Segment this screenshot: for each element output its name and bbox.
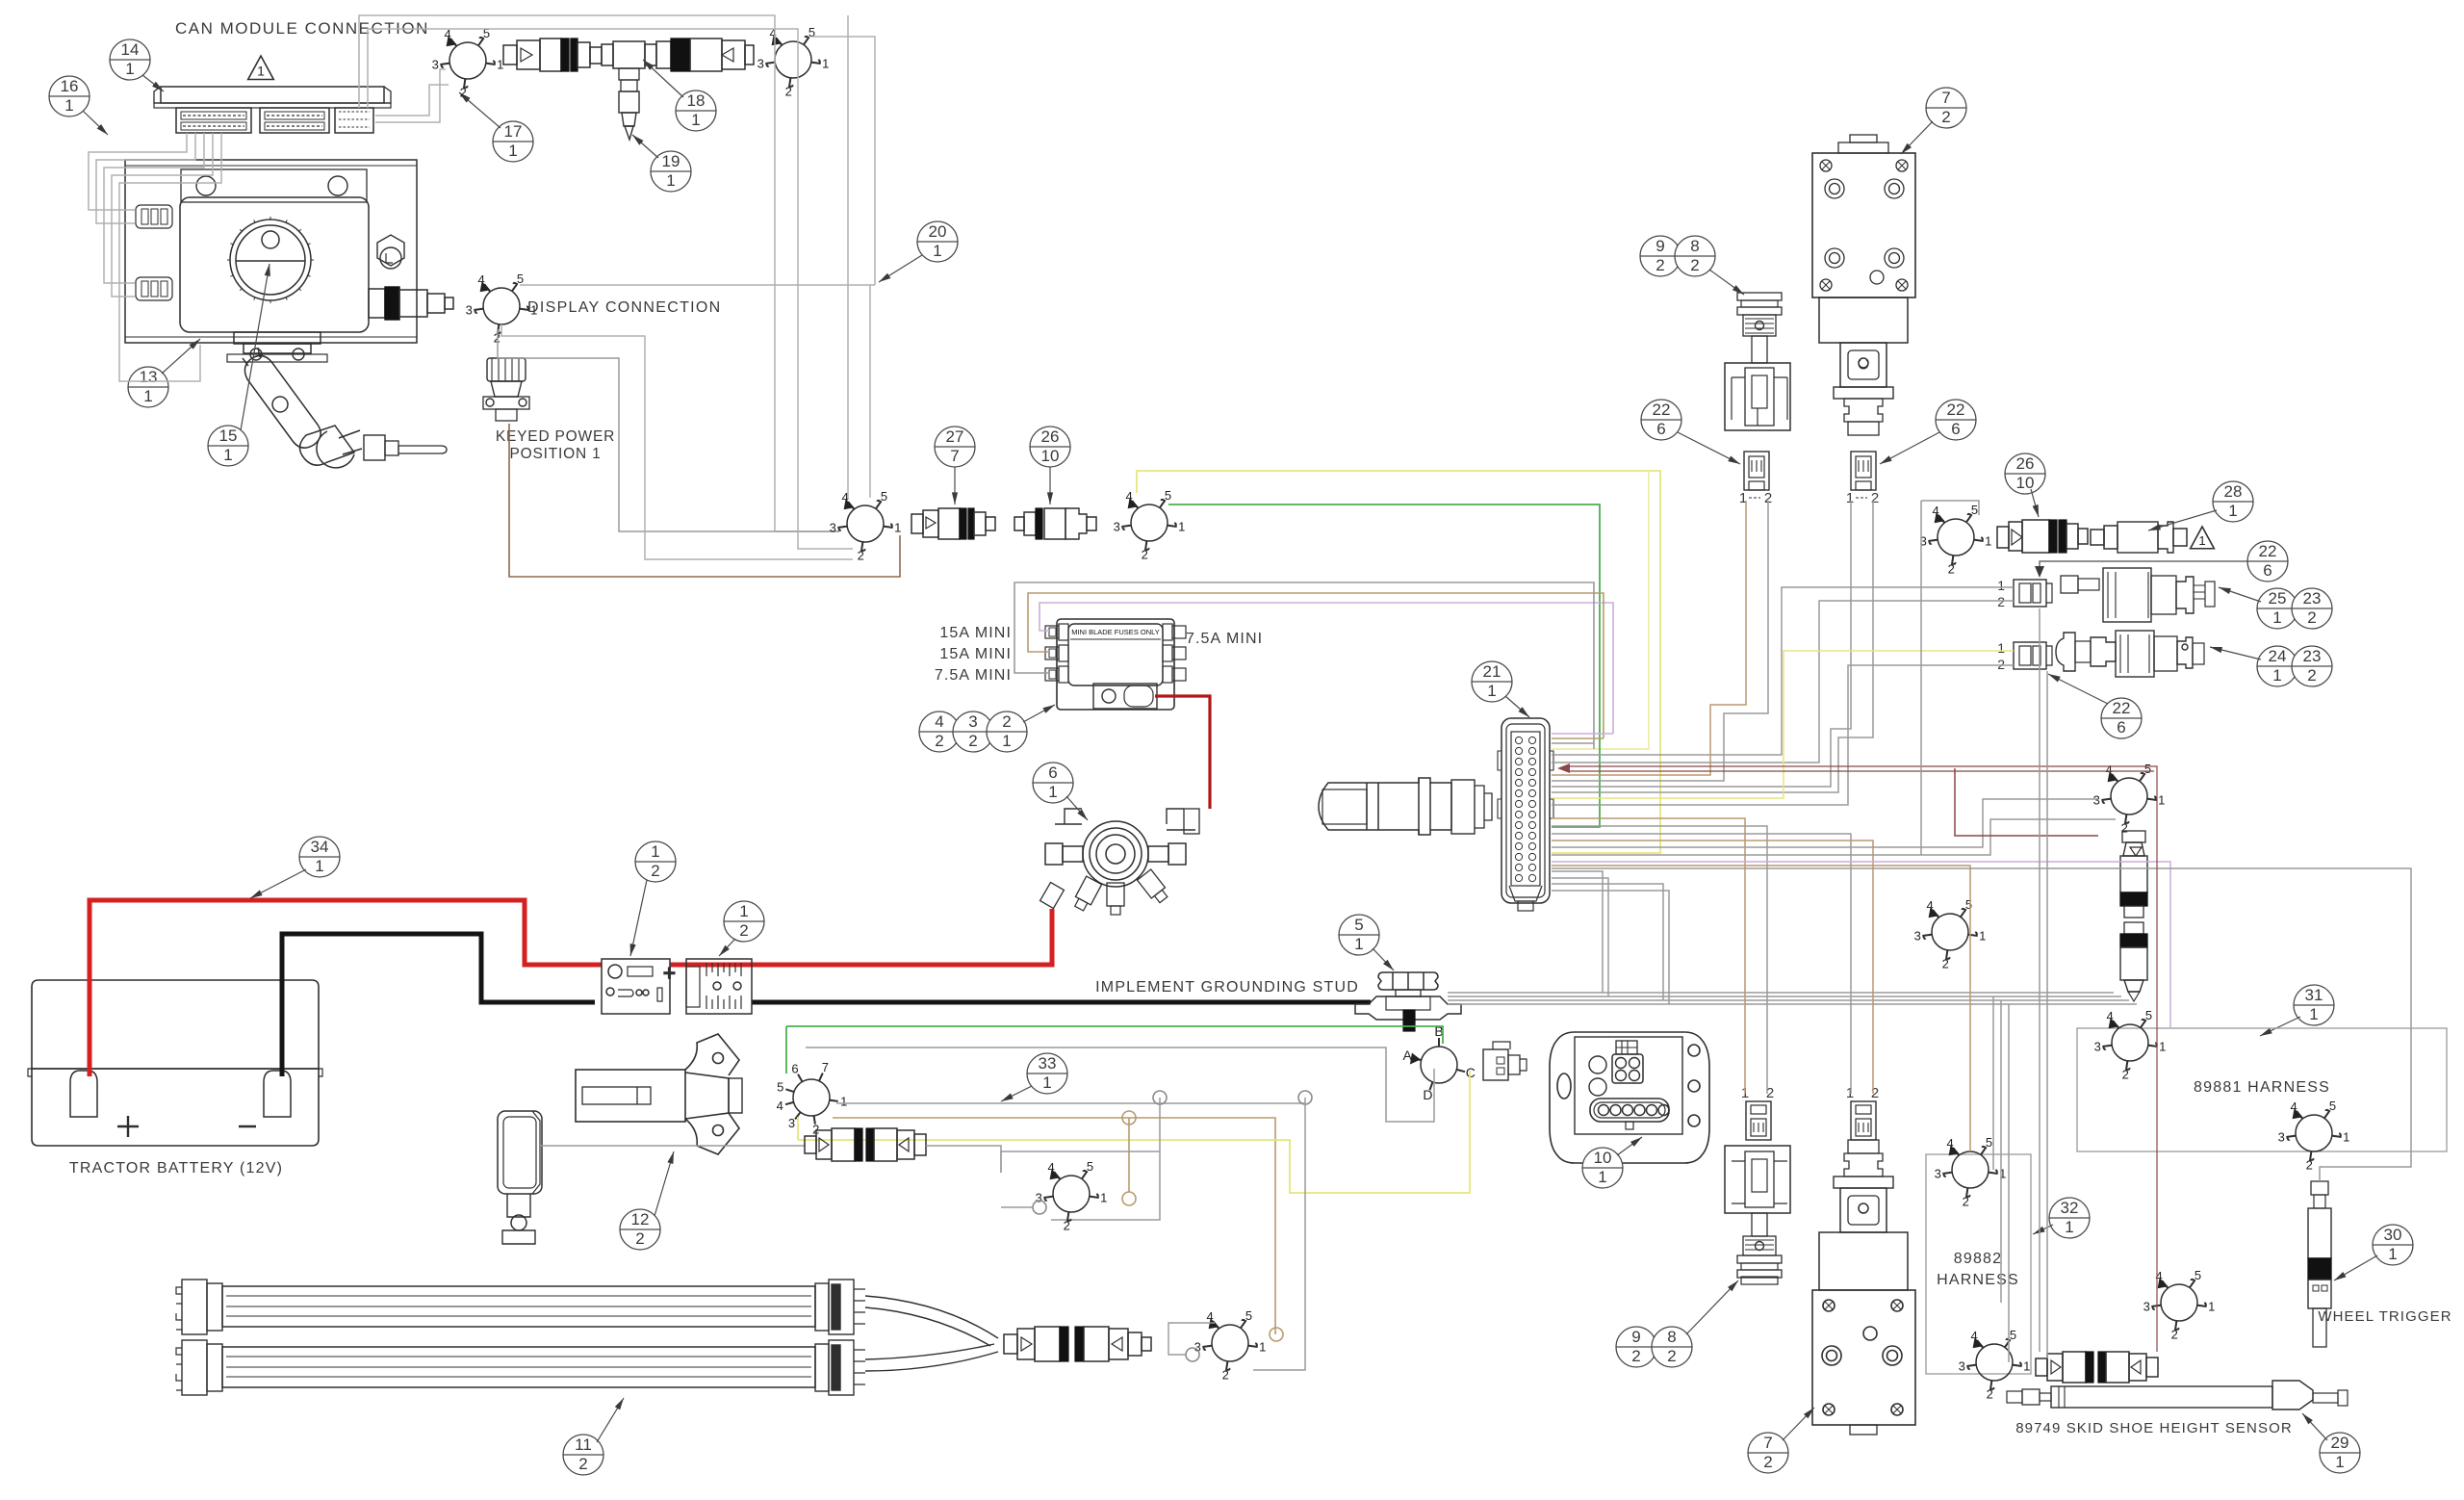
svg-text:26: 26 (2016, 454, 2035, 473)
leader callout 12 (654, 1151, 674, 1216)
svg-text:2: 2 (1763, 1453, 1772, 1471)
svg-text:1: 1 (1997, 640, 2005, 656)
svg-text:4: 4 (777, 1099, 783, 1113)
solenoid valve item 8/9 top body (1725, 363, 1790, 430)
leader callout 17 (459, 92, 500, 128)
cable to connector I (926, 1146, 1001, 1173)
svg-text:3: 3 (1935, 1167, 1941, 1181)
grey bundle wire 2 (1448, 996, 2121, 997)
wire rail-to-module 1 (89, 133, 187, 210)
control module item 10 body (1550, 1032, 1709, 1163)
wire junction down to connector D pin5 (869, 285, 871, 498)
svg-text:2: 2 (1997, 594, 2005, 609)
svg-text:1: 1 (2208, 1300, 2215, 1314)
harness box 89881 (2077, 1028, 2447, 1151)
svg-text:1: 1 (2065, 1218, 2073, 1236)
svg-text:1: 1 (1846, 1085, 1854, 1101)
bundle drop 2 (2000, 1000, 2002, 1303)
callout 1/2 b (724, 901, 764, 942)
svg-text:1: 1 (2158, 793, 2165, 808)
svg-text:3: 3 (968, 712, 977, 731)
callout 19/1 (651, 151, 691, 192)
svg-text:8: 8 (1667, 1328, 1676, 1346)
svg-text:1: 1 (143, 387, 152, 405)
callout 7/2 top (1926, 88, 1966, 128)
svg-text:3: 3 (1036, 1191, 1042, 1205)
junction ring grey I (1033, 1201, 1046, 1214)
callout 2/1 (987, 711, 1027, 752)
svg-text:2: 2 (2171, 1328, 2178, 1342)
junction ring tan I (1122, 1192, 1136, 1205)
wire rail to connector A lower (375, 85, 449, 116)
callout 32/1 (2049, 1198, 2090, 1238)
circular connector K1 (89882 top) (1943, 1147, 1997, 1197)
red wire module 6 bottom (1050, 909, 1055, 965)
svg-text:17: 17 (504, 122, 523, 141)
svg-text:3: 3 (1914, 929, 1921, 944)
inline connector assembly item 18 right plug (645, 39, 754, 71)
junction ring tan 1 (1122, 1111, 1136, 1125)
svg-text:5: 5 (881, 489, 887, 504)
svg-text:1: 1 (1985, 534, 1991, 549)
svg-text:POSITION 1: POSITION 1 (510, 446, 602, 462)
skid shoe height sensor item 29 (2007, 1381, 2348, 1409)
svg-text:20: 20 (929, 222, 947, 241)
circular connector A (CAN module) (441, 38, 495, 88)
leader callout 1b (719, 939, 735, 956)
battery minus symbol (239, 1125, 256, 1127)
callout 11/2 (563, 1435, 603, 1475)
leader callout 21 (1505, 696, 1529, 717)
callout 5/1 (1339, 915, 1379, 955)
svg-text:1: 1 (2272, 666, 2281, 685)
battery plus symbol (117, 1116, 139, 1137)
tan wire fuse row2 (1028, 593, 1604, 738)
callout 1/2 a (635, 841, 676, 882)
svg-text:1: 1 (1979, 929, 1986, 944)
svg-text:2: 2 (1871, 1085, 1879, 1101)
nest ground wire 2 (1552, 878, 1608, 996)
svg-text:5: 5 (1986, 1135, 1992, 1150)
nest wire 20 (1552, 868, 2411, 1181)
green wire implement (786, 1026, 1443, 1073)
display module knob item 15 (227, 217, 314, 303)
svg-text:1: 1 (1002, 732, 1011, 750)
junction ring grey 1 (1153, 1091, 1167, 1104)
control module indicator circles (1589, 1056, 1606, 1096)
black battery cable (282, 934, 595, 1076)
distribution module top brackets (1055, 809, 1199, 834)
svg-text:15A MINI: 15A MINI (939, 625, 1012, 641)
svg-text:KEYED POWER: KEYED POWER (496, 428, 615, 445)
svg-text:1: 1 (651, 842, 659, 861)
leader callout 25 (2219, 587, 2261, 602)
leader callout 28 (2148, 510, 2217, 530)
callout 26/10 (1030, 427, 1070, 467)
svg-text:1: 1 (933, 242, 941, 260)
nest wire 18 (1552, 862, 2170, 1028)
callout 25/1 (2257, 588, 2297, 629)
svg-text:5: 5 (808, 25, 815, 39)
callout 9/2 top (1640, 236, 1681, 276)
svg-text:2: 2 (651, 862, 659, 880)
junction ring grey H (1186, 1348, 1199, 1361)
bundle drop 3 (2008, 1004, 2010, 1362)
nest ground wire 1 (1552, 871, 1603, 993)
svg-text:3: 3 (1194, 1340, 1201, 1355)
svg-text:7: 7 (1941, 89, 1950, 107)
callout 18/1 (676, 91, 716, 131)
bundle drop 1 (1992, 996, 1994, 1170)
leader callout 20 (879, 255, 922, 282)
svg-text:25: 25 (2269, 589, 2287, 608)
svg-text:1: 1 (1354, 935, 1363, 953)
svg-text:6: 6 (791, 1062, 798, 1076)
svg-text:2: 2 (460, 86, 467, 100)
svg-text:1: 1 (691, 111, 700, 129)
svg-text:22: 22 (2259, 542, 2277, 560)
wire connector B pin5 to bus (812, 37, 875, 285)
wire box around connector B outer (359, 15, 839, 531)
RAM mount arm item 15 (243, 348, 321, 448)
connector strip middle on rail (260, 108, 329, 133)
callout 14/1 (110, 39, 150, 80)
nest wire 10 (1552, 651, 2014, 798)
svg-text:22: 22 (1947, 401, 1965, 419)
valve block item 7 bottom (1812, 1290, 1915, 1435)
anderson connector 2 (right) (686, 959, 752, 1014)
svg-text:2: 2 (2306, 1158, 2313, 1173)
svg-text:2: 2 (935, 732, 943, 750)
wheel trigger item 30 (2308, 1181, 2331, 1347)
svg-text:3: 3 (2278, 1130, 2285, 1145)
svg-text:1: 1 (508, 142, 517, 160)
nest wire 6 (1552, 501, 1746, 775)
callout 21/1 (1472, 661, 1512, 702)
work light item 12 (498, 1111, 542, 1244)
nest wire 2 (1552, 737, 1604, 739)
wire rail-to-module 3 (104, 133, 204, 283)
leader callout 1a (630, 880, 647, 956)
svg-text:DISPLAY CONNECTION: DISPLAY CONNECTION (527, 299, 722, 316)
keyed power connector (483, 358, 529, 421)
barrel connector pair item 11 (1004, 1327, 1151, 1361)
svg-text:5: 5 (1165, 488, 1171, 503)
4-pin plug left of module 10 (1483, 1042, 1527, 1080)
lavender wire fuse row1 (1039, 603, 1613, 734)
vertical inline connector below G lower (2120, 922, 2147, 1001)
circular connector E (1122, 500, 1176, 550)
svg-text:7: 7 (822, 1060, 829, 1074)
callout 22/6 mid (2247, 541, 2288, 582)
check valve item 25 (2061, 568, 2215, 622)
leader callout 22 low (2048, 674, 2108, 704)
display module item 13 outer body (125, 160, 417, 343)
grey drop from ring1 (1051, 1098, 1160, 1220)
svg-text:1: 1 (1259, 1340, 1266, 1355)
svg-text:3: 3 (2143, 1300, 2150, 1314)
barrel connector item 26 middle (1014, 508, 1096, 539)
leader callout 13 (162, 339, 200, 374)
barrel connector item 26 right (1997, 520, 2088, 553)
svg-text:6: 6 (1656, 420, 1665, 438)
svg-text:3: 3 (1959, 1359, 1965, 1374)
svg-text:5: 5 (2144, 762, 2151, 776)
nest wire 13 (1552, 826, 1767, 1094)
nest wire 3 (1552, 742, 1594, 744)
leader callout 14 (142, 75, 164, 91)
leader callout 7 bottom (1783, 1408, 1814, 1440)
svg-text:5: 5 (777, 1080, 783, 1095)
inline connector assembly item 18 left plug (503, 39, 602, 71)
svg-text:2: 2 (1942, 957, 1949, 971)
red battery cable (90, 900, 602, 1076)
grey bundle wire 3 (1448, 999, 2129, 1001)
svg-text:5: 5 (2145, 1008, 2152, 1022)
svg-text:89749 SKID SHOE HEIGHT SENSOR: 89749 SKID SHOE HEIGHT SENSOR (2015, 1420, 2293, 1436)
svg-text:8: 8 (1690, 237, 1699, 255)
svg-text:22: 22 (1653, 401, 1671, 419)
marker light tube item 11 #1 (176, 1280, 865, 1334)
nest wire 17 (1552, 819, 2116, 855)
nest wire 8 (1552, 501, 1851, 787)
wire box around connector B inner (368, 29, 798, 108)
leader callout 2 to fuse box (1023, 705, 1055, 722)
svg-text:2: 2 (1963, 1195, 1969, 1209)
nest wire 19 (1552, 866, 1970, 1151)
grey vertical to connector H box (1253, 1098, 1305, 1370)
connector strip right on rail (335, 108, 373, 133)
fuse holder left top on module (136, 205, 172, 228)
distribution module left port (1045, 843, 1083, 865)
callout 16/1 (49, 76, 90, 116)
svg-text:2: 2 (578, 1455, 587, 1473)
svg-text:1: 1 (64, 96, 73, 115)
nest wire 4 (1552, 587, 2014, 755)
svg-text:5: 5 (1971, 503, 1978, 517)
circular connector K3 (skid shoe) (2152, 1280, 2206, 1330)
pale yellow branch to ECU (1552, 472, 1649, 749)
fuse holder left bottom on module (136, 277, 172, 300)
grey wire fuse row3 (1014, 582, 1594, 749)
svg-text:1: 1 (1178, 520, 1185, 534)
solenoid valve item 8/9 top cartridge (1737, 293, 1782, 363)
callout 15/1 (208, 426, 248, 466)
svg-text:1: 1 (2309, 1005, 2318, 1023)
callout 17/1 (493, 121, 533, 162)
svg-text:13: 13 (140, 368, 158, 386)
svg-text:1: 1 (894, 521, 901, 535)
svg-text:2: 2 (1002, 712, 1011, 731)
circular connector J1 (89881 left) (2103, 1020, 2157, 1070)
green wire connector E to ECU (1168, 504, 1600, 827)
vertical inline connector below G upper (2120, 831, 2147, 918)
svg-text:1: 1 (2335, 1453, 2344, 1471)
svg-text:WHEEL TRIGGER: WHEEL TRIGGER (2318, 1308, 2451, 1325)
svg-text:26: 26 (1041, 427, 1060, 446)
Y cable from tubes (865, 1296, 998, 1371)
svg-text:5: 5 (517, 272, 524, 286)
svg-text:5: 5 (1965, 897, 1972, 912)
svg-text:7.5A MINI: 7.5A MINI (1186, 631, 1263, 647)
leader callout 22 mid (2040, 561, 2247, 571)
callout 22/6 low (2101, 698, 2142, 738)
wire rail to connector A (375, 69, 446, 122)
junction ring grey 2 (1298, 1091, 1312, 1104)
maroon wire long run (1566, 766, 2157, 1352)
nest ground wire 4 (1552, 891, 1669, 1004)
leader callout 30 (2334, 1255, 2377, 1280)
grey box around connector F (1921, 501, 1979, 855)
svg-text:1: 1 (315, 857, 323, 875)
wire rail-to-module 5 (119, 133, 221, 381)
leader callout 8 top (1709, 270, 1744, 295)
svg-text:1: 1 (2388, 1245, 2397, 1263)
grey bundle wire 1 (1448, 992, 2114, 994)
svg-text:6: 6 (1048, 763, 1057, 782)
circular connector F (1929, 514, 1983, 564)
svg-text:2: 2 (1142, 548, 1148, 562)
distribution module right port (1148, 843, 1186, 865)
yellow wire bottom run (798, 1071, 1470, 1193)
svg-text:9: 9 (1655, 237, 1664, 255)
CAN module connector rail item 14 (154, 87, 391, 108)
fuse terminals left of fuse box (1045, 624, 1068, 640)
control module 6-pin connector (1590, 1099, 1669, 1129)
barrel connector pair item 12 left (805, 1128, 926, 1161)
grey wire item 33 (836, 1102, 1305, 1104)
svg-text:5: 5 (1354, 916, 1363, 934)
svg-text:14: 14 (121, 40, 140, 59)
leader callout 10 (1617, 1137, 1642, 1155)
svg-text:22: 22 (2113, 699, 2131, 717)
barrel connector item 27 (911, 508, 995, 539)
svg-text:1: 1 (1999, 1167, 2006, 1181)
leader callout 7 top (1901, 121, 1933, 154)
tractor battery body (28, 980, 322, 1146)
svg-text:27: 27 (946, 427, 964, 446)
circular connector ABCD (1413, 1038, 1465, 1090)
distribution module item 6 (1083, 821, 1148, 887)
leader callout 6 (1066, 796, 1088, 820)
callout 12/2 (620, 1209, 660, 1250)
leader callout 22 left (1678, 432, 1740, 464)
svg-text:3: 3 (432, 58, 439, 72)
svg-text:HARNESS: HARNESS (1937, 1272, 2019, 1288)
yellow wire connector E down right side (1137, 471, 1660, 853)
svg-text:33: 33 (1039, 1054, 1057, 1073)
leader callout 8 bottom (1686, 1280, 1738, 1334)
svg-text:15A MINI: 15A MINI (939, 646, 1012, 662)
maroon wire upper branch (1955, 768, 2098, 836)
mini connector 22 first (2014, 580, 2052, 607)
battery positive post (70, 1071, 97, 1117)
leader callout 32 (2033, 1225, 2053, 1234)
circular connector L (1923, 909, 1977, 959)
wire connector C pin5 to bus (520, 284, 875, 286)
svg-text:3: 3 (788, 1116, 795, 1130)
callout 8/2 bottom (1652, 1327, 1692, 1367)
svg-text:1: 1 (257, 63, 265, 78)
svg-text:1: 1 (666, 171, 675, 190)
red wire fuse box to module 6 (1155, 696, 1210, 809)
grey vertical mini22 down 1 (2039, 608, 2040, 1352)
tan wire below 33 (833, 1118, 1275, 1334)
svg-text:29: 29 (2331, 1434, 2349, 1452)
nest wire 5 (1552, 601, 2014, 763)
svg-text:3: 3 (466, 303, 473, 318)
svg-text:10: 10 (1594, 1149, 1612, 1167)
leader callout 19 (632, 135, 658, 158)
callout 13/1 (128, 367, 168, 407)
svg-text:5: 5 (2329, 1099, 2336, 1113)
box outline around connector H (1168, 1323, 1215, 1355)
svg-text:24: 24 (2269, 647, 2287, 665)
svg-text:MINI BLADE FUSES ONLY: MINI BLADE FUSES ONLY (1071, 628, 1160, 636)
distribution module bottom stub connectors (1040, 869, 1170, 915)
marker light tube item 11 #2 (176, 1340, 865, 1395)
svg-text:1: 1 (1042, 1073, 1051, 1092)
solenoid cartridge item 24 (2056, 631, 2204, 677)
svg-text:31: 31 (2305, 986, 2323, 1004)
svg-text:1: 1 (1048, 783, 1057, 801)
mini connector 22 second (2014, 642, 2052, 669)
callout 23/2 a (2292, 588, 2332, 629)
nest wire 11 (1552, 665, 2014, 805)
svg-text:2: 2 (1222, 1368, 1229, 1383)
svg-text:2: 2 (785, 85, 792, 99)
circular connector D (838, 501, 892, 551)
svg-text:1: 1 (1846, 490, 1854, 506)
wire rail-to-module 2 (96, 133, 195, 223)
callout 27/7 (935, 427, 975, 467)
cable light (540, 1145, 805, 1147)
callout 23/2 b (2292, 646, 2332, 686)
anderson connector 1 (left) (602, 959, 676, 1014)
callout 26/10 right (2005, 453, 2045, 494)
warning triangle 1 (248, 56, 274, 80)
circular connector H (tubes) (1203, 1320, 1257, 1370)
callout 7/2 bottom (1748, 1433, 1788, 1473)
svg-text:2: 2 (1987, 1387, 1993, 1402)
leader callout 27 (954, 467, 956, 504)
wire connector C outer box route (501, 324, 853, 559)
harness box 89882 (1926, 1154, 2031, 1374)
solenoid cartridge item 8/9 bottom (1737, 1213, 1782, 1284)
relay connector body left of ECU (1319, 778, 1492, 835)
callout 20/1 (917, 221, 958, 262)
display module inner plate (180, 169, 369, 332)
circular connector K2 (89882 bottom) (1967, 1339, 2021, 1389)
svg-text:2: 2 (635, 1229, 644, 1248)
nest wire 7 (1552, 501, 1768, 781)
svg-text:6: 6 (2263, 561, 2271, 580)
yellow wire 7-pin drop (797, 1117, 799, 1140)
wire connector B pin4 down (847, 15, 849, 499)
svg-text:3: 3 (1114, 520, 1120, 534)
black cable to grounding stud (752, 1000, 1371, 1005)
red battery cable right of connector (670, 909, 1052, 965)
svg-text:6: 6 (2117, 718, 2125, 737)
svg-text:3: 3 (2093, 793, 2100, 808)
svg-text:+: + (663, 961, 676, 985)
leader callout 29 (2302, 1413, 2327, 1440)
leader callout 11 (597, 1398, 624, 1442)
leader callout 34 (250, 869, 306, 898)
callout 30/1 (2373, 1225, 2413, 1265)
svg-text:6: 6 (1951, 420, 1960, 438)
callout 31/1 (2294, 985, 2334, 1025)
